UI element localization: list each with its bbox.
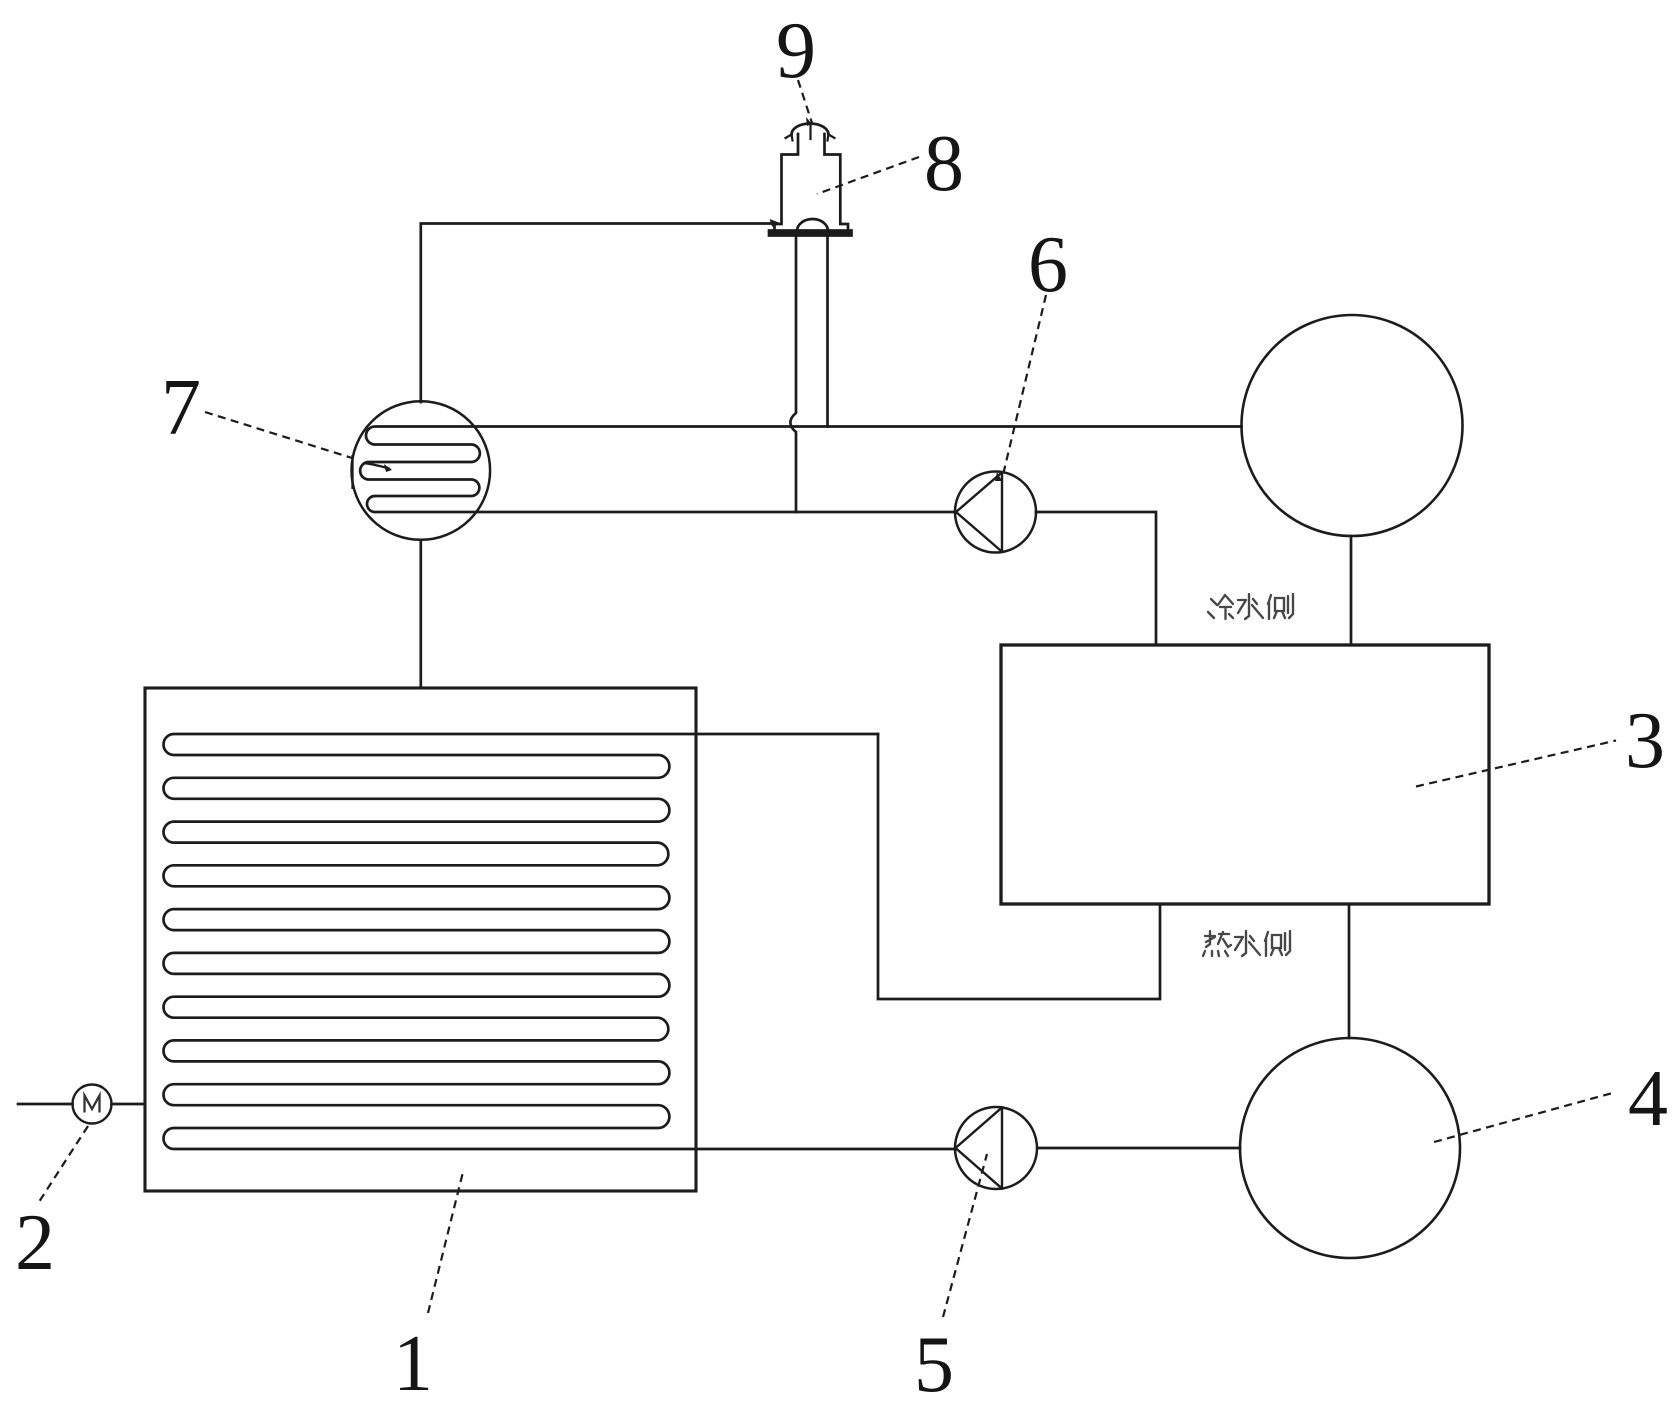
tick at end of leader 7 — [351, 455, 353, 489]
svg-text:9: 9 — [776, 7, 816, 95]
expansion tank circle (top right) — [1242, 315, 1463, 536]
svg-text:6: 6 — [1028, 221, 1068, 309]
wire: hot water return (coil top tube down to tank 3 bottom port) — [878, 734, 1160, 999]
burner 8 vent cap arc — [792, 124, 829, 135]
heat exchanger 7 circle — [352, 401, 491, 540]
svg-text:5: 5 — [914, 1321, 954, 1404]
leader to label 3 — [1416, 741, 1616, 787]
storage tank 4 circle — [1240, 1038, 1460, 1258]
letter M in motor valve 2 — [85, 1096, 100, 1113]
heat exchanger 7 coil and main top pipe to tank — [360, 427, 1241, 513]
svg-text:3: 3 — [1625, 697, 1665, 785]
burner 8 body — [775, 134, 849, 231]
arrowhead at burner 8 inlet — [770, 219, 782, 227]
arrowhead at end of leader 6 — [995, 472, 1002, 481]
leader to label 7 — [205, 412, 352, 458]
water tank 3 rectangle — [1001, 645, 1489, 904]
wire: tank 3 bottom to storage tank 4 — [1348, 904, 1351, 1038]
flow arrow inside heat exchanger 7 — [364, 463, 390, 469]
wire: pump 5 outlet to storage tank 4 — [1038, 1147, 1240, 1150]
burner 8 base plate — [769, 231, 852, 236]
wire: inlet to motor valve 2 — [18, 1103, 73, 1106]
pump 6 circle — [955, 472, 1036, 553]
leader to label 5 — [943, 1154, 987, 1317]
leader to label 8 — [817, 157, 919, 194]
pump 5 internals (chord and triangle) — [956, 1108, 1003, 1189]
wire: motor valve 2 to panel 1 — [112, 1103, 146, 1106]
burner 8 left downpipe with break jog — [790, 236, 796, 513]
wire: heat exchanger 7 top to burner 8 — [421, 224, 776, 403]
text: cold water side (cooling) 冷水侧 — [1208, 594, 1293, 619]
flow arrowhead inside heat exchanger 7 — [384, 464, 392, 472]
burner 8 vent cap barbs — [786, 135, 835, 141]
svg-text:1: 1 — [393, 1320, 433, 1404]
pump 6 internals (chord and triangle) — [956, 472, 1002, 551]
serpentine coil inside panel 1 — [164, 734, 955, 1149]
svg-text:7: 7 — [161, 364, 201, 452]
burner 8 right downpipe — [826, 236, 829, 427]
burner 8 vent center tick — [809, 126, 811, 139]
svg-text:8: 8 — [924, 120, 964, 208]
svg-text:2: 2 — [15, 1199, 55, 1287]
panel 1 (solar collector rectangle) — [145, 688, 696, 1191]
wire: heat exchanger 7 bottom to panel 1 top — [419, 540, 422, 688]
motor valve 2 circle — [73, 1085, 112, 1124]
svg-text:4: 4 — [1628, 1055, 1668, 1143]
pump 5 circle — [955, 1107, 1037, 1189]
burner 8 dome — [797, 219, 828, 231]
wire: expansion tank bottom to tank 3 top — [1350, 536, 1353, 645]
leader to label 2 — [37, 1126, 88, 1205]
leader to label 4 — [1434, 1092, 1616, 1142]
leader to label 1 — [428, 1172, 463, 1313]
wire: pump 6 outlet to tank 3 top — [1036, 512, 1156, 645]
leader to label 6 — [1002, 295, 1046, 479]
leader to label 9 — [798, 80, 812, 123]
text: hot water side (heating) 热水侧 — [1203, 931, 1290, 956]
arrowhead at end of leader 9 — [806, 117, 812, 126]
